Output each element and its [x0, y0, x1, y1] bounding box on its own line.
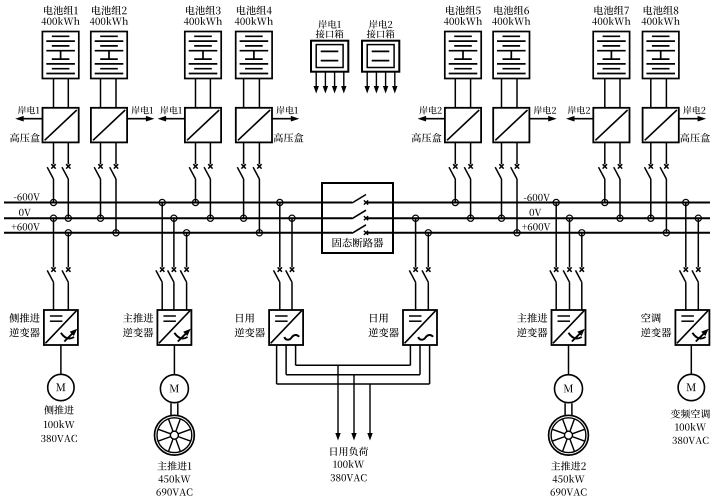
high-voltage box 高压盒 (DC/DC) for B2: [91, 108, 127, 143]
shore power arrow 岸电1 for B2: [127, 106, 154, 121]
breaker set for 侧推进逆变器: [47, 267, 70, 282]
label 主推进1 450kW 690VAC: [156, 461, 192, 496]
node: 侧推进逆变器 feed on bus: [50, 215, 56, 221]
inverter 主推进逆变器2: [517, 310, 586, 345]
breaker set for 空调逆变器: [680, 267, 701, 282]
wire: 日用逆变器1 outputs: [277, 345, 296, 384]
wire: battery B1 to HV box: [54, 79, 69, 108]
propeller (thruster fan) 主推进2: [549, 415, 589, 455]
battery group B1 (电池组1 400kWh): [41, 6, 79, 79]
wire: HV box B4 to disconnectors: [244, 142, 260, 164]
motor M 侧推进 (side thruster): [48, 374, 74, 400]
motor M 主推进1: [160, 375, 188, 403]
wire: breakers to 日用逆变器1 box: [280, 282, 292, 310]
bus label +600V (right of breaker): [522, 223, 550, 230]
motor M 主推进2: [555, 375, 583, 403]
shore power arrow 岸电2 for B7: [566, 106, 593, 121]
label 高压盒 (right group, left): [412, 133, 442, 143]
node: B4 left terminal on bus: [241, 215, 247, 221]
breaker pair for B5: [449, 164, 473, 179]
output arrows of 岸电1接口箱: [314, 72, 347, 94]
node: B5 right terminal on bus: [468, 215, 474, 221]
label 高压盒 (left group, right): [274, 133, 304, 143]
wire: HV box B5 to disconnectors: [455, 142, 470, 164]
wire: B3 breakers to bus: [196, 179, 211, 218]
breaker set for 主推进逆变器1: [156, 267, 189, 282]
wire: B6 breakers to bus: [502, 179, 518, 233]
node: B5 left terminal on bus: [452, 199, 458, 205]
node: 日用逆变器1 feed on bus: [277, 199, 283, 205]
node: B6 left terminal on bus: [498, 215, 504, 221]
node: 主推进逆变器2 feed on bus: [566, 215, 572, 221]
shore power arrow 岸电2 for B5: [418, 106, 445, 121]
breaker set for 日用逆变器1: [274, 267, 295, 282]
breaker pair for B4: [237, 164, 261, 179]
node: B2 right terminal on bus: [113, 230, 119, 236]
battery group B6 (电池组6 400kWh): [492, 6, 530, 79]
shore power arrow 岸电2 for B6: [529, 106, 556, 121]
breaker pair for B1: [47, 164, 70, 179]
wire: bus to 日用逆变器2 breaker: [427, 233, 429, 268]
node: B3 right terminal on bus: [207, 215, 213, 221]
high-voltage box 高压盒 (DC/DC) for B8: [643, 108, 679, 143]
wire: bus to 主推进逆变器1 breaker: [161, 203, 163, 268]
wire: 侧推进逆变器 to motor: [60, 345, 62, 374]
bus +600V: [4, 223, 710, 233]
high-voltage box 高压盒 (DC/DC) for B1: [43, 108, 79, 143]
wire: battery B2 to HV box: [101, 79, 117, 108]
wire: daily service phase bus 1: [296, 364, 411, 366]
wire: B1 breakers to bus: [54, 179, 69, 218]
wire: battery B8 to HV box: [651, 79, 667, 108]
bus -600V: [4, 193, 710, 202]
node: B7 right terminal on bus: [617, 215, 623, 221]
node: 日用逆变器2 feed on bus: [425, 230, 431, 236]
wire: bus to 主推进逆变器2 breaker: [569, 218, 571, 267]
label 高压盒 (right group, right): [680, 133, 710, 143]
wire: battery B6 to HV box: [502, 79, 518, 108]
wire: bus to 侧推进逆变器 breaker: [67, 233, 69, 268]
breaker set for 日用逆变器2: [409, 267, 430, 282]
label 日用负荷 100kW 380VAC: [330, 447, 368, 482]
wire: breakers to 侧推进逆变器 box: [54, 282, 69, 310]
inverter 主推进逆变器1: [123, 310, 192, 345]
high-voltage box 高压盒 (DC/DC) for B4: [236, 108, 272, 143]
wire: B8 breakers to bus: [651, 179, 667, 233]
bus 0V: [4, 209, 710, 218]
node: 主推进逆变器1 feed on bus: [184, 230, 190, 236]
wire: bus to 主推进逆变器2 breaker: [581, 233, 583, 268]
wire: daily service phase bus 2: [286, 374, 420, 376]
node: 主推进逆变器2 feed on bus: [553, 199, 559, 205]
shaft: motor to propeller 主推进2: [565, 403, 572, 415]
bus label 0V (right of breaker): [530, 209, 542, 216]
wire: bus to 侧推进逆变器 breaker: [53, 218, 55, 267]
wire: inverter to motor 主推进2: [568, 345, 570, 375]
shore power arrow 岸电1 for B3: [158, 106, 185, 121]
node: 主推进逆变器1 feed on bus: [159, 199, 165, 205]
shore power arrow 岸电2 for B8: [679, 106, 706, 121]
node: B8 right terminal on bus: [663, 230, 669, 236]
battery group B7 (电池组7 400kWh): [592, 6, 630, 79]
high-voltage box 高压盒 (DC/DC) for B5: [445, 108, 481, 143]
wire: breakers to 日用逆变器2 box: [416, 282, 429, 310]
wire: daily service phase bus 3: [277, 383, 430, 385]
high-voltage box 高压盒 (DC/DC) for B6: [493, 108, 529, 143]
node: 空调逆变器 feed on bus: [695, 215, 701, 221]
wire: bus to 主推进逆变器1 breaker: [186, 233, 188, 268]
battery group B3 (电池组3 400kWh): [184, 6, 222, 79]
wire: HV box B1 to disconnectors: [54, 142, 69, 164]
wire: breakers to 主推进逆变器2 box: [556, 282, 582, 310]
shore power arrow 岸电1 for B4: [272, 106, 299, 121]
shore interface box 岸电2接口箱: [362, 20, 399, 72]
wire: bus to 空调逆变器 breaker: [685, 203, 687, 268]
label 侧推进 100kW 380VAC: [41, 405, 77, 442]
wire: B4 breakers to bus: [244, 179, 260, 233]
node: 日用逆变器2 feed on bus: [413, 215, 419, 221]
node: 主推进逆变器2 feed on bus: [579, 230, 585, 236]
propeller (thruster fan) 主推进1: [155, 415, 195, 455]
breaker pair for B3: [189, 164, 212, 179]
node: B7 left terminal on bus: [602, 199, 608, 205]
wire: B5 breakers to bus: [455, 179, 470, 218]
wire: 日用逆变器2 outputs: [410, 345, 429, 384]
label 主推进2 450kW 690VAC: [551, 461, 587, 496]
wire: HV box B2 to disconnectors: [101, 142, 117, 164]
wire: inverter to motor 主推进1: [173, 345, 175, 375]
wire: bus to 日用逆变器1 breaker: [279, 203, 281, 268]
inverter 日用逆变器1: [235, 310, 304, 345]
battery group B4 (电池组4 400kWh): [235, 6, 273, 79]
breaker set for 主推进逆变器2: [550, 267, 584, 282]
inverter 日用逆变器2: [368, 310, 437, 345]
wire: bus to 日用逆变器1 breaker: [291, 218, 293, 267]
wire: HV box B7 to disconnectors: [605, 142, 620, 164]
wire: bus to 空调逆变器 breaker: [697, 218, 699, 267]
node: B6 right terminal on bus: [514, 230, 520, 236]
node: 主推进逆变器1 feed on bus: [171, 215, 177, 221]
battery group B5 (电池组5 400kWh): [444, 6, 482, 79]
wire: breakers to 主推进逆变器1 box: [162, 282, 186, 310]
breaker pair for B6: [495, 164, 519, 179]
node: B3 left terminal on bus: [192, 199, 198, 205]
wire: breakers to 空调逆变器 box: [686, 282, 699, 310]
high-voltage box 高压盒 (DC/DC) for B3: [185, 108, 221, 143]
inverter 空调逆变器: [641, 310, 710, 345]
bus label -600V (right of breaker): [524, 194, 550, 201]
node: B8 left terminal on bus: [648, 215, 654, 221]
node: B2 left terminal on bus: [97, 215, 103, 221]
wire: 空调逆变器 to motor: [690, 345, 692, 374]
wire: bus to 主推进逆变器2 breaker: [555, 203, 557, 268]
wire: bus to 日用逆变器2 breaker: [415, 218, 417, 267]
wire: battery B4 to HV box: [244, 79, 260, 108]
daily load feeder arrows 日用负荷: [335, 365, 372, 440]
shore power arrow 岸电1 for B1: [15, 106, 42, 121]
motor M 变频空调 (VFD air conditioner): [678, 374, 704, 400]
output arrows of 岸电2接口箱: [365, 72, 398, 94]
battery group B8 (电池组8 400kWh): [642, 6, 680, 79]
label 变频空调 100kW 380VAC: [671, 409, 710, 444]
wire: bus to 主推进逆变器1 breaker: [173, 218, 175, 267]
label 高压盒 (left group, left): [10, 133, 40, 143]
breaker pair for B8: [645, 164, 669, 179]
breaker pair for B7: [599, 164, 623, 179]
node: 侧推进逆变器 feed on bus: [65, 230, 71, 236]
inverter 侧推进逆变器: [9, 310, 78, 345]
wire: B2 breakers to bus: [101, 179, 117, 233]
battery group B2 (电池组2 400kWh): [90, 6, 128, 79]
wire: battery B7 to HV box: [605, 79, 620, 108]
node: 空调逆变器 feed on bus: [683, 199, 689, 205]
breaker pair for B2: [94, 164, 118, 179]
shore interface box 岸电1接口箱: [311, 20, 348, 72]
node: B1 right terminal on bus: [65, 215, 71, 221]
solid-state circuit breaker 固态断路器: [322, 183, 393, 253]
wire: HV box B3 to disconnectors: [196, 142, 211, 164]
node: B1 left terminal on bus: [50, 199, 56, 205]
wire: HV box B6 to disconnectors: [502, 142, 518, 164]
high-voltage box 高压盒 (DC/DC) for B7: [593, 108, 629, 143]
shaft: motor to propeller 主推进1: [171, 403, 178, 415]
wire: battery B5 to HV box: [455, 79, 470, 108]
node: B4 right terminal on bus: [256, 230, 262, 236]
wire: HV box B8 to disconnectors: [651, 142, 667, 164]
wire: B7 breakers to bus: [605, 179, 620, 218]
wire: battery B3 to HV box: [196, 79, 211, 108]
node: 日用逆变器1 feed on bus: [289, 215, 295, 221]
